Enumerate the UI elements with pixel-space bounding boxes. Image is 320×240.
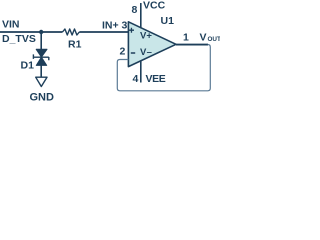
op-amp minus input sign	[131, 52, 135, 54]
svg-text:1: 1	[183, 32, 189, 44]
diode D1 TVS bidirectional	[33, 49, 48, 65]
wire junction to D1	[40, 32, 42, 49]
op-amp U1	[128, 22, 176, 67]
wire VIN to IN+ pin 3	[0, 31, 128, 33]
wire D1 to GND	[40, 65, 42, 77]
svg-text:VCC: VCC	[143, 0, 166, 12]
svg-text:8: 8	[132, 4, 138, 16]
svg-text:GND: GND	[30, 92, 55, 101]
svg-text:R1: R1	[68, 39, 82, 51]
wire VCC pin 8	[140, 3, 142, 28]
wire VEE pin 4	[140, 60, 142, 82]
wire feedback loop output to inverting input pin 2	[117, 45, 210, 91]
svg-text:D_TVS: D_TVS	[2, 33, 36, 45]
svg-text:VEE: VEE	[146, 73, 166, 85]
svg-text:2: 2	[120, 46, 126, 58]
op-amp plus input sign	[129, 28, 134, 33]
svg-text:VIN: VIN	[2, 19, 20, 31]
wire output pin 1 to VOUT	[176, 44, 208, 46]
svg-text:U1: U1	[161, 15, 175, 27]
resistor R1	[63, 29, 80, 35]
svg-text:D1: D1	[21, 60, 35, 72]
ground symbol	[36, 77, 47, 86]
svg-text:V–: V–	[140, 47, 152, 58]
node junction dot	[39, 30, 43, 34]
svg-text:IN+ 3: IN+ 3	[102, 20, 128, 32]
svg-text:V: V	[200, 32, 207, 44]
svg-text:OUT: OUT	[208, 36, 221, 43]
svg-text:4: 4	[133, 73, 139, 85]
svg-text:V+: V+	[140, 31, 152, 42]
